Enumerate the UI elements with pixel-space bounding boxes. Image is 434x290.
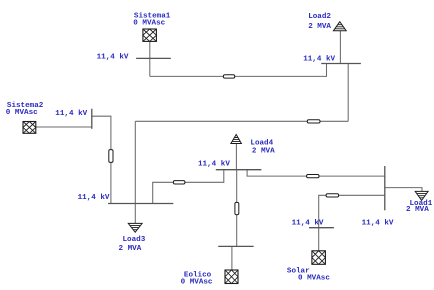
impedance Z4 on Bus4-Bus7 line [307,175,319,178]
wire Load1 stem [385,188,422,192]
bus Bus5 Eolico 11,4 kV [218,245,253,247]
load Load2 symbol (striped cone up) [333,22,346,31]
svg-text:11,4 kV: 11,4 kV [97,54,129,62]
impedance Z6 on Sistema2 branch vertical [109,150,113,163]
bus Bus1 11,4 kV [136,57,171,59]
load Load1 symbol (striped cone down) [415,191,428,200]
wire Bus4 to Bus3 branch [153,170,224,204]
impedance Z5 on Solar-Bus7 line [326,194,339,197]
bus Bus7 Load1 11,4 kV vertical [384,166,386,210]
svg-text:11,4 kV: 11,4 kV [292,219,324,227]
load Load4 symbol (striped cone up) [231,135,242,144]
svg-text:2 MVA: 2 MVA [252,147,275,155]
impedance Z7 on Bus4-Bus5 branch vertical [235,202,239,214]
wire Bus1 to Bus2 horizontal [150,64,327,77]
wire Bus2 to Bus3 horizontal [135,120,348,122]
svg-text:11,4 kV: 11,4 kV [55,110,87,118]
svg-text:0 MVAsc: 0 MVAsc [133,20,165,28]
power grid U4 Solar symbol [312,251,326,264]
svg-text:Load4: Load4 [250,139,273,147]
svg-text:Load3: Load3 [123,236,146,244]
bus Bus4 11,4 kV [216,169,262,171]
power grid U1 Sistema1 symbol [143,29,157,41]
svg-text:2 MVA: 2 MVA [119,245,142,253]
bus Bus2 11,4 kV [321,63,361,65]
power grid U2 Sistema2 symbol [23,122,36,134]
wire Sistema1 drop to Bus1 [149,41,151,76]
svg-text:0 MVAsc: 0 MVAsc [181,279,213,287]
wire Eolico drop [231,246,233,270]
wire Bus4 to Bus7 branch [247,170,385,176]
wire Bus4 to Bus5 branch [236,170,238,247]
impedance Z2 on Bus2-Bus3 line [307,120,320,123]
svg-text:11,4 kV: 11,4 kV [78,194,110,202]
svg-text:11,4 kV: 11,4 kV [198,161,230,169]
wire Sistema2 box to bus [36,126,92,128]
svg-text:2 MVA: 2 MVA [308,23,331,31]
wire Load2 stem [339,31,341,64]
svg-text:0 MVAsc: 0 MVAsc [298,275,330,283]
wire Solar branch [319,195,385,250]
impedance Z3 on Bus4-Bus3 line [173,181,185,184]
svg-text:Load2: Load2 [308,13,331,21]
bus Bus6 Solar 11,4 kV [309,227,334,229]
bus Bus8 Sistema2 11,4 kV vertical [91,109,93,129]
svg-text:11,4 kV: 11,4 kV [303,56,335,64]
impedance Z1 on Bus1-Bus2 line [223,75,234,78]
load Load3 symbol (striped cone down) [128,223,142,232]
wire Load4 stem [235,144,237,170]
svg-text:11,4 kV: 11,4 kV [362,219,394,227]
power grid U3 Eolico symbol [225,270,238,284]
svg-text:2 MVA: 2 MVA [406,206,429,214]
wire Bus2 right drop [347,64,349,122]
wire Bus3/Load3 vertical [134,121,136,223]
wire Sistema2 bus branch [92,116,111,203]
bus Bus3 11,4 kV [108,203,173,205]
svg-text:0 MVAsc: 0 MVAsc [6,109,38,117]
